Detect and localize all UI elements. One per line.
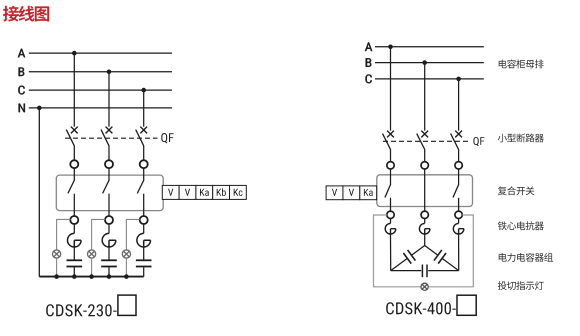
breaker QF linkage (dashed, right) bbox=[383, 140, 470, 142]
switch blade pole 3 (right) bbox=[453, 184, 459, 197]
switch blade pole 2 (left) bbox=[103, 180, 110, 194]
wire terminal to switch pole 1 (right) bbox=[390, 169, 392, 184]
label QF (right) bbox=[473, 137, 484, 146]
indicator lamp HL (right) bbox=[421, 283, 428, 290]
model suffix box (right) bbox=[457, 295, 476, 315]
wire lamp branch 2 (left, gray) bbox=[92, 219, 105, 250]
breaker QF pole 1 blade (right) bbox=[383, 134, 391, 150]
capacitor C3 plates (left) bbox=[136, 260, 152, 266]
wire terminal to switch pole 1 (left) bbox=[73, 168, 75, 180]
terminal circle lower pole 1 (left) bbox=[70, 216, 78, 224]
wire lamp branch 3 (left, gray) bbox=[126, 219, 139, 250]
bus line B (right) bbox=[375, 62, 484, 64]
junction on bus C (right) bbox=[456, 77, 461, 82]
breaker QF pole 3 contact x-mark (left) bbox=[140, 127, 147, 134]
bus line B (left) bbox=[29, 71, 172, 73]
wire terminal to reactor L2 (right) bbox=[424, 219, 426, 224]
junction on bottom bus (left) bbox=[124, 274, 129, 279]
breaker QF linkage (dashed, left) bbox=[65, 137, 158, 139]
wire terminal to switch pole 3 (left) bbox=[143, 168, 145, 180]
capacitor C2 delta branch (right) wires bbox=[425, 246, 459, 271]
label 复合开关 (composite switch) bbox=[498, 186, 535, 195]
junction on bottom bus (left) bbox=[89, 274, 94, 279]
junction on bus A (left) bbox=[72, 51, 77, 56]
terminal circle upper pole 2 (left) bbox=[105, 160, 113, 168]
junction on bottom bus (left) bbox=[54, 274, 59, 279]
breaker QF pole 3 contact x-mark (right) bbox=[455, 131, 462, 138]
wire bus C to breaker QF pole 3 (right) bbox=[458, 79, 460, 131]
wire blade to terminal (left pole 2) bbox=[108, 146, 110, 161]
junction on bottom bus (left) bbox=[107, 274, 112, 279]
bus line A (left) bbox=[29, 52, 172, 54]
capacitor C2 plates (left) bbox=[101, 260, 117, 266]
junction on bus C (left) bbox=[141, 88, 146, 93]
terminal circle upper pole 3 (left) bbox=[140, 160, 148, 168]
label 电容柜母排 (capacitor cabinet busbar) bbox=[499, 60, 544, 69]
wire capacitor C1 to bottom bus (left) bbox=[73, 267, 75, 276]
bus line N (left) bbox=[29, 107, 172, 109]
wire switch pole 3 to lower terminal (right) bbox=[458, 198, 460, 211]
breaker QF pole 2 blade (right) bbox=[417, 134, 425, 150]
label Ka cell 3 (left) bbox=[200, 189, 209, 196]
wire blade to terminal (right pole 3) bbox=[458, 149, 460, 162]
label phase B (left) bbox=[19, 68, 25, 77]
indicator lamp HL1 (left) bbox=[53, 250, 61, 258]
wire terminal to reactor L3 (left) bbox=[143, 224, 145, 234]
junction on bottom bus (left) bbox=[72, 274, 77, 279]
terminal circle upper pole 1 (left) bbox=[70, 160, 78, 168]
reactor L3 (iron-core, right) bbox=[453, 223, 464, 234]
wire terminal to switch pole 2 (left) bbox=[108, 168, 110, 180]
wire terminal to reactor L2 (left) bbox=[108, 224, 110, 234]
terminal block V V Ka (right) bbox=[326, 186, 377, 200]
wire terminal to switch pole 3 (right) bbox=[458, 169, 460, 184]
capacitor C1 delta branch (right) plates bbox=[403, 250, 415, 264]
wire switch pole 1 to lower terminal (left) bbox=[73, 194, 75, 217]
wire bus B to breaker QF pole 2 (right) bbox=[424, 63, 426, 131]
bus line C (left) bbox=[29, 89, 172, 91]
wire reactor L1 to delta corner (right) bbox=[390, 234, 392, 271]
capacitor C3 delta bottom wires (right) bbox=[391, 270, 459, 272]
terminal circle upper pole 2 (right) bbox=[421, 162, 428, 169]
label V cell 2 (right) bbox=[349, 189, 354, 196]
terminal circle upper pole 3 (right) bbox=[455, 162, 462, 169]
label phase C (left) bbox=[18, 86, 24, 95]
capacitor C3 plates (right) bbox=[422, 265, 427, 278]
label phase A (right) bbox=[365, 43, 372, 52]
label 铁心电抗器 (iron-core reactor) bbox=[498, 221, 544, 230]
capacitor C1 delta branch (right) wires bbox=[391, 246, 425, 271]
title 接线图 (wiring diagram) bbox=[3, 6, 49, 22]
junction on bus A (right) bbox=[388, 45, 393, 50]
capacitor C2 delta branch (right) plates bbox=[434, 250, 446, 264]
indicator lamp HL3 (left) bbox=[122, 250, 130, 258]
breaker QF pole 3 blade (right) bbox=[451, 134, 459, 150]
wire lamp HL2 to bottom bus (left, gray) bbox=[91, 258, 93, 277]
terminal block V V Ka Kb Kc (left) bbox=[162, 185, 246, 199]
terminal circle lower pole 3 (left) bbox=[140, 216, 148, 224]
label phase C (right) bbox=[366, 75, 372, 84]
label 投切指示灯 (switching indicator lamp) bbox=[498, 281, 544, 290]
breaker QF pole 1 contact x-mark (left) bbox=[71, 127, 78, 134]
breaker QF pole 2 blade (left) bbox=[101, 130, 109, 146]
wire terminal to reactor L1 (left) bbox=[73, 224, 75, 234]
label Kb cell 4 (left) bbox=[217, 188, 226, 196]
wire reactor to capacitor C1 (left) bbox=[73, 247, 75, 260]
label V cell 1 (right) bbox=[332, 189, 337, 196]
wire blade to terminal (left pole 1) bbox=[73, 146, 75, 161]
capacitor C1 plates (left) bbox=[67, 260, 83, 266]
label CDSK-400- (right) bbox=[386, 302, 456, 314]
composite switch box (right) bbox=[377, 175, 473, 207]
wire blade to terminal (right pole 1) bbox=[390, 149, 392, 162]
wire bus C to breaker QF pole 3 (left) bbox=[143, 90, 145, 127]
label Kc cell 5 (left) bbox=[234, 189, 243, 196]
bus line C (right) bbox=[375, 78, 484, 80]
junction on bus N (left, node N tap) bbox=[37, 106, 42, 111]
wire lamp HL3 to bottom bus (left, gray) bbox=[125, 258, 127, 277]
wire blade to terminal (left pole 3) bbox=[143, 146, 145, 161]
label 小型断路器 (miniature circuit breaker) bbox=[498, 134, 544, 143]
reactor L1 (iron-core, left) bbox=[68, 233, 82, 247]
wire blade to terminal (right pole 2) bbox=[424, 149, 426, 162]
breaker QF pole 3 blade (left) bbox=[136, 130, 144, 146]
label 电力电容器组 (power capacitor bank) bbox=[499, 253, 553, 262]
junction on bus B (left) bbox=[107, 70, 112, 75]
label V cell 1 (left) bbox=[168, 189, 173, 196]
wire N tap down to bottom bus (left) bbox=[38, 108, 40, 277]
wire terminal to reactor L1 (right) bbox=[390, 219, 392, 224]
label phase A (left) bbox=[18, 49, 25, 58]
junction on bus B (right) bbox=[422, 60, 427, 65]
reactor L2 (iron-core, left) bbox=[102, 233, 116, 247]
wire terminal to reactor L3 (right) bbox=[458, 219, 460, 224]
bottom neutral bus (left) bbox=[39, 276, 143, 278]
label phase B (right) bbox=[366, 58, 372, 67]
wire lamp HL1 to bottom bus (left, gray) bbox=[56, 258, 58, 277]
terminal circle upper pole 1 (right) bbox=[387, 162, 394, 169]
model suffix box (left) bbox=[118, 295, 136, 315]
wire bus B to breaker QF pole 2 (left) bbox=[108, 72, 110, 127]
label CDSK-230- (left) bbox=[46, 304, 116, 316]
label V cell 2 (left) bbox=[185, 189, 190, 196]
indicator lamp HL2 (left) bbox=[88, 250, 96, 258]
terminal circle lower pole 2 (left) bbox=[105, 216, 113, 224]
wire bus A to breaker QF pole 1 (left) bbox=[73, 53, 75, 127]
breaker QF pole 2 contact x-mark (left) bbox=[106, 127, 113, 134]
label phase N (left) bbox=[19, 104, 25, 113]
switch blade pole 3 (left) bbox=[137, 180, 144, 194]
capacitor bank enclosure (right, gray) bbox=[374, 215, 474, 287]
terminal circle lower pole 3 (right) bbox=[455, 211, 462, 218]
reactor L1 (iron-core, right) bbox=[385, 223, 396, 234]
wire switch pole 3 to lower terminal (left) bbox=[143, 194, 145, 217]
switch blade pole 1 (left) bbox=[68, 180, 75, 194]
breaker QF pole 1 contact x-mark (right) bbox=[387, 131, 394, 138]
wire bus A to breaker QF pole 1 (right) bbox=[390, 47, 392, 131]
bus line A (right) bbox=[375, 46, 484, 48]
composite switch box (left) bbox=[56, 175, 163, 211]
wire switch pole 2 to lower terminal (left) bbox=[108, 194, 110, 217]
wire reactor to capacitor C2 (left) bbox=[108, 247, 110, 260]
label QF (left) bbox=[161, 133, 173, 143]
wire reactor to capacitor C3 (left) bbox=[143, 247, 145, 260]
wire capacitor C2 to bottom bus (left) bbox=[108, 267, 110, 276]
wire straight-through pole 2 (right) bbox=[424, 169, 426, 211]
breaker QF pole 2 contact x-mark (right) bbox=[421, 131, 428, 138]
wire reactor L3 to delta corner (right) bbox=[458, 234, 460, 271]
wire lamp branch 1 (left, gray) bbox=[57, 219, 71, 250]
terminal circle lower pole 2 (right) bbox=[421, 211, 428, 218]
reactor L3 (iron-core, left) bbox=[137, 233, 151, 247]
terminal circle lower pole 1 (right) bbox=[387, 211, 394, 218]
wire reactor L2 to delta apex (right) bbox=[424, 234, 426, 246]
label Ka cell 3 (right) bbox=[364, 189, 373, 196]
breaker QF pole 1 blade (left) bbox=[66, 130, 74, 146]
switch blade pole 1 (right) bbox=[385, 184, 391, 197]
wire switch pole 1 to lower terminal (right) bbox=[390, 198, 392, 211]
wire capacitor C3 to bottom bus (left) bbox=[143, 267, 145, 276]
reactor L2 (iron-core, right) bbox=[419, 223, 430, 234]
